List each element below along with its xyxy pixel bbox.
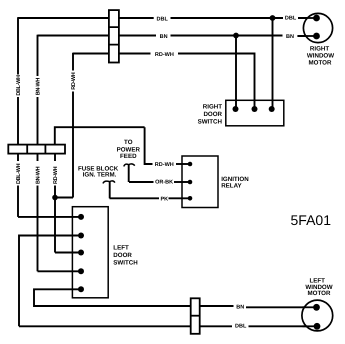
wire to left door switch pin 1 bbox=[18, 216, 81, 218]
svg-text:DBL-WH: DBL-WH bbox=[16, 163, 22, 184]
wire OR-BK from arrow to label bbox=[129, 181, 154, 183]
svg-text:DBL: DBL bbox=[235, 324, 247, 330]
wire BN bottom label to left motor bbox=[246, 306, 317, 308]
junction dot DBL bbox=[270, 15, 276, 21]
left door switch pin 3 bbox=[78, 250, 84, 256]
wire BN motor label to right motor pin bbox=[297, 35, 316, 37]
svg-text:5FA01: 5FA01 bbox=[291, 212, 332, 228]
svg-text:PK: PK bbox=[161, 196, 169, 202]
left window motor circle U2 bbox=[302, 300, 333, 331]
svg-text:FEED: FEED bbox=[120, 153, 137, 160]
wire relay RD-WH label to pin bbox=[176, 163, 190, 165]
right window motor circle U1 bbox=[303, 13, 332, 42]
right door switch pin 1 bbox=[233, 106, 239, 112]
wire stub inside right motor top bbox=[304, 17, 317, 19]
wire junction horizontal RD-WH to node A bbox=[55, 197, 73, 199]
svg-text:RD-WH: RD-WH bbox=[155, 52, 174, 58]
wire DBL bottom from connector to label bbox=[200, 325, 232, 327]
wire DBL right of top connector to label bbox=[119, 17, 154, 19]
arrowhead to fuse block term bbox=[103, 181, 115, 184]
wire stub inside right motor bottom bbox=[304, 35, 317, 37]
svg-text:DBL: DBL bbox=[285, 16, 297, 22]
wire BN-WH vertical upper segment bbox=[37, 35, 39, 76]
wire BN label to junction and motor label bbox=[171, 35, 283, 37]
wire DBL-WH vertical lower segment to connector bbox=[17, 97, 19, 145]
right window motor pin top bbox=[313, 15, 320, 22]
wire PK arrow vertical bbox=[109, 182, 111, 198]
wire PK from arrow to label bbox=[110, 197, 160, 199]
wire OR-BK arrow vertical bbox=[128, 165, 130, 183]
wire RD-WH top horizontal left of connector bbox=[73, 53, 109, 55]
right door switch pin 3 bbox=[269, 106, 275, 112]
svg-text:BN-WH: BN-WH bbox=[36, 78, 42, 96]
ignition relay pin 1 bbox=[188, 162, 193, 167]
junction dot BN bbox=[233, 33, 239, 39]
wire BN bottom from connector to label bbox=[200, 305, 234, 307]
wire DBL-WH vertical upper segment bbox=[17, 17, 19, 74]
left door switch box bbox=[72, 207, 108, 298]
left door switch pin 4 bbox=[78, 268, 84, 274]
wire DBL bottom horizontal to connector bbox=[19, 325, 191, 327]
svg-text:WINDOW: WINDOW bbox=[307, 53, 334, 60]
svg-text:DOOR: DOOR bbox=[203, 111, 222, 118]
left window motor pin bottom bbox=[314, 323, 321, 330]
wire DBL-WH below connector stub bbox=[17, 154, 19, 161]
right door switch box bbox=[226, 100, 284, 126]
wire RD-WH vertical lower segment to junction bbox=[72, 92, 74, 198]
connector C3 bottom 2-way bbox=[191, 298, 200, 334]
wire left door switch pin 2 branch down (DBL) bbox=[19, 236, 81, 327]
wire DBL motor label to right motor pin bbox=[298, 17, 317, 19]
wire RD-WH lower vertical through node A to switch bbox=[54, 186, 56, 253]
connector C2 left 3-way bbox=[8, 145, 65, 154]
wire left door switch pin 5 branch down (BN) bbox=[34, 289, 191, 306]
left window motor pin top bbox=[313, 304, 320, 311]
ignition relay box bbox=[182, 156, 218, 208]
wire stub inside left motor top bbox=[303, 306, 317, 308]
svg-text:MOTOR: MOTOR bbox=[309, 60, 332, 67]
wire RD-WH below connector stub bbox=[54, 154, 56, 161]
wire DBL junction drop to right door switch pin 3 bbox=[272, 18, 274, 109]
svg-text:BN-WH: BN-WH bbox=[36, 166, 42, 184]
svg-text:RD-WH: RD-WH bbox=[53, 166, 59, 184]
svg-text:RIGHT: RIGHT bbox=[203, 104, 222, 111]
svg-text:RD-WH: RD-WH bbox=[71, 72, 77, 90]
svg-text:SWITCH: SWITCH bbox=[198, 119, 223, 126]
wire DBL-WH lower vertical to switch bbox=[17, 186, 19, 217]
wire BN-WH below connector stub bbox=[37, 154, 39, 161]
svg-text:IGN. TERM.: IGN. TERM. bbox=[83, 172, 117, 179]
wire cell3 up from left connector bbox=[55, 127, 145, 144]
svg-text:RELAY: RELAY bbox=[221, 183, 242, 190]
wire to left door switch pin 3 bbox=[55, 252, 81, 254]
connector C1 top 3-way bbox=[109, 10, 119, 62]
wire RD-WH vertical upper segment bbox=[72, 53, 74, 71]
left door switch pin 1 bbox=[78, 214, 84, 220]
wire DBL label to junction and motor label bbox=[171, 17, 284, 19]
svg-text:OR-BK: OR-BK bbox=[155, 180, 173, 186]
wire drop to relay RD-WH pin bbox=[145, 127, 153, 164]
wire BN junction drop to right door switch pin 1 bbox=[235, 36, 237, 110]
wire to left door switch pin 4 bbox=[38, 270, 82, 272]
arrowhead to power feed bbox=[124, 164, 135, 167]
wire RD-WH label to right door switch pin 2 bbox=[178, 54, 255, 110]
wire DBL top horizontal left of connector bbox=[18, 17, 109, 19]
right window motor pin bottom bbox=[313, 33, 320, 40]
svg-text:BN: BN bbox=[286, 34, 294, 40]
wire OR-BK label to relay pin bbox=[174, 181, 190, 183]
ignition relay pin 2 bbox=[188, 180, 193, 185]
svg-text:DBL-WH: DBL-WH bbox=[16, 75, 22, 96]
node A junction dot bbox=[52, 195, 58, 201]
svg-text:BN: BN bbox=[160, 34, 168, 40]
wire DBL bottom label to left motor bbox=[249, 325, 318, 327]
svg-text:DBL: DBL bbox=[157, 17, 169, 23]
wire PK label to relay pin bbox=[169, 197, 191, 199]
svg-text:DOOR: DOOR bbox=[113, 252, 132, 259]
svg-text:BN: BN bbox=[236, 304, 244, 310]
svg-text:RD-WH: RD-WH bbox=[155, 162, 174, 168]
wire BN-WH vertical lower segment to connector bbox=[37, 97, 39, 145]
wire BN top horizontal left of connector bbox=[38, 35, 109, 37]
svg-text:SWITCH: SWITCH bbox=[113, 260, 138, 267]
wire stub inside left motor bottom bbox=[303, 325, 318, 327]
right door switch pin 2 bbox=[252, 106, 258, 112]
wire BN-WH lower vertical to switch bbox=[37, 186, 39, 272]
wire RD-WH right of top connector to label bbox=[119, 53, 151, 55]
svg-text:RIGHT: RIGHT bbox=[310, 45, 329, 52]
left door switch pin 5 bbox=[78, 286, 84, 292]
left door switch pin 2 bbox=[78, 233, 84, 239]
wire BN right of top connector to label bbox=[119, 35, 156, 37]
svg-text:TO: TO bbox=[124, 139, 133, 146]
ignition relay pin 3 bbox=[188, 196, 193, 201]
svg-text:LEFT: LEFT bbox=[113, 244, 129, 251]
svg-text:MOTOR: MOTOR bbox=[308, 290, 331, 297]
